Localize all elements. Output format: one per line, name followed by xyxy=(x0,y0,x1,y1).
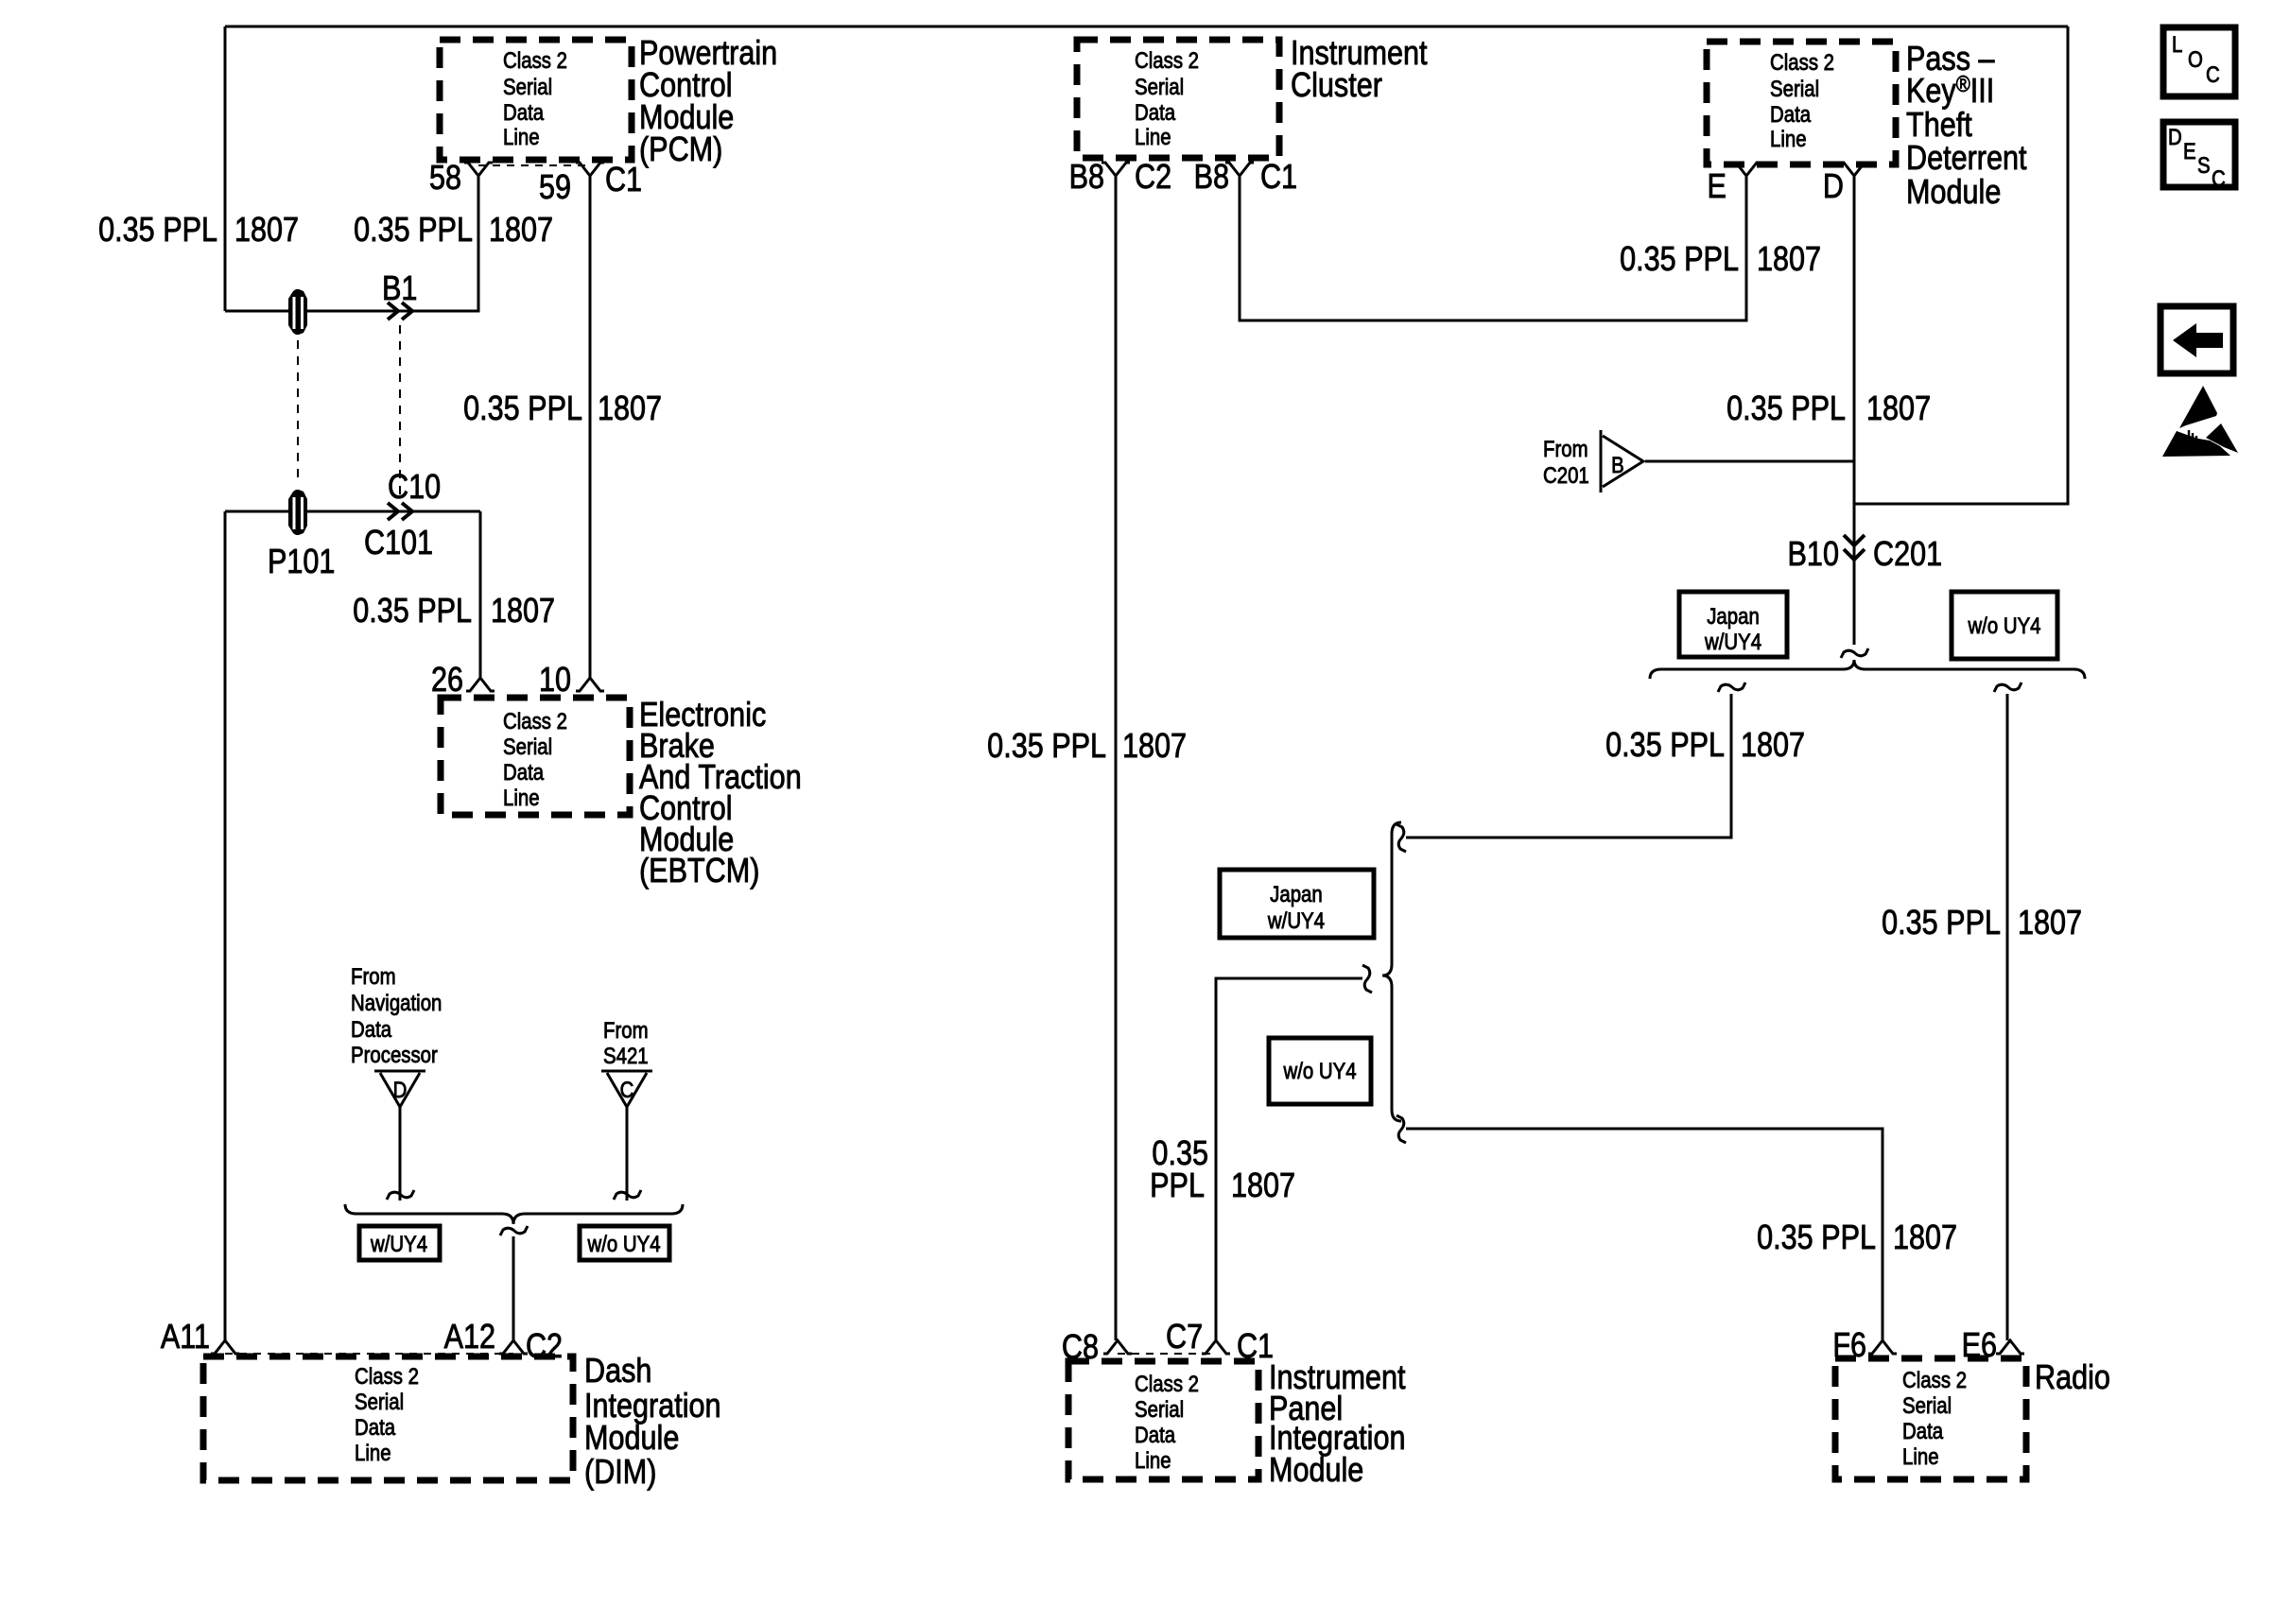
svg-text:1807: 1807 xyxy=(234,212,299,250)
wire break mark east end of IPM C1 link xyxy=(1362,965,1372,993)
svg-text:1807: 1807 xyxy=(1866,390,1931,428)
wire C101 row xyxy=(225,510,480,513)
svg-text:0.35 PPL: 0.35 PPL xyxy=(98,212,217,250)
svg-text:Processor: Processor xyxy=(351,1042,438,1067)
svg-text:C7: C7 xyxy=(1166,1319,1203,1356)
svg-text:w/UY4: w/UY4 xyxy=(370,1231,427,1256)
svg-text:C1: C1 xyxy=(1260,159,1297,197)
wire PassKey D drop to brace xyxy=(1853,176,1856,645)
svg-text:Japan: Japan xyxy=(1270,881,1323,907)
svg-text:Navigation: Navigation xyxy=(351,990,442,1015)
svg-text:1807: 1807 xyxy=(1122,728,1187,766)
wire top bus xyxy=(225,26,2068,28)
svg-text:Class 2: Class 2 xyxy=(1770,49,1834,75)
pin 26 fork xyxy=(466,678,495,691)
svg-text:1807: 1807 xyxy=(491,593,555,631)
wire PCM pin 59/C1 down to EBTCM pin 10 xyxy=(589,176,592,678)
svg-text:0.35 PPL: 0.35 PPL xyxy=(463,390,582,428)
svg-text:w/o UY4: w/o UY4 xyxy=(1283,1058,1357,1083)
wire thin dashed DIM pins A11-A12 xyxy=(225,1353,513,1355)
svg-text:E: E xyxy=(2183,138,2196,164)
svg-text:Class 2: Class 2 xyxy=(355,1363,419,1389)
option box w/o UY4 middle xyxy=(1269,1038,1371,1104)
svg-text:C101: C101 xyxy=(364,525,433,562)
wire break mark triangle D drop end xyxy=(387,1190,414,1200)
svg-text:Class 2: Class 2 xyxy=(503,47,567,73)
svg-text:D: D xyxy=(393,1077,408,1102)
wire C101 row down to EBTCM pin 26 xyxy=(479,511,482,678)
svg-text:C8: C8 xyxy=(1062,1329,1099,1367)
wire triangle C drop xyxy=(626,1107,629,1201)
triangle D From Navigation Data Processor xyxy=(374,1071,425,1107)
wire break mark branch left top xyxy=(1718,682,1745,692)
svg-text:58: 58 xyxy=(429,160,461,198)
svg-text:0.35 PPL: 0.35 PPL xyxy=(353,593,472,631)
module Radio dashed box xyxy=(1835,1358,2026,1479)
pin E Y xyxy=(1732,163,1761,176)
svg-text:1807: 1807 xyxy=(1757,241,1821,279)
svg-text:B: B xyxy=(1611,452,1624,477)
svg-text:S: S xyxy=(2197,152,2211,178)
svg-text:1807: 1807 xyxy=(598,390,662,428)
svg-text:Serial: Serial xyxy=(503,74,552,99)
vertical brace merging Japan/UY4 branches into IPM C1 xyxy=(1382,822,1401,1121)
wire break mark branch right top xyxy=(1994,682,2021,692)
wire thin dashed PCM pins 58-59 xyxy=(478,164,590,166)
svg-text:O: O xyxy=(2188,46,2203,72)
pin 10 fork xyxy=(576,678,604,691)
svg-text:1807: 1807 xyxy=(1741,727,1805,765)
svg-text:Data: Data xyxy=(1135,99,1176,125)
svg-text:1807: 1807 xyxy=(1231,1167,1295,1205)
connector B10/C201 chevrons xyxy=(1844,535,1865,560)
option box w/o UY4 upper xyxy=(1952,592,2057,659)
svg-text:D: D xyxy=(1823,168,1844,206)
svg-text:C1: C1 xyxy=(605,162,642,199)
pin 58 Y xyxy=(464,163,493,176)
svg-text:0.35 PPL: 0.35 PPL xyxy=(1726,390,1846,428)
svg-text:Cluster: Cluster xyxy=(1291,67,1382,105)
svg-text:(EBTCM): (EBTCM) xyxy=(639,853,759,890)
wire dashed B1 to C10 vertical xyxy=(399,325,401,497)
svg-text:Class 2: Class 2 xyxy=(1135,47,1199,73)
svg-text:w/UY4: w/UY4 xyxy=(1704,629,1761,654)
wire from triangle B to D drop xyxy=(1645,460,1854,463)
wire branch left below brace to vertical brace top xyxy=(1406,694,1731,838)
option box Japan w/UY4 upper xyxy=(1679,592,1787,657)
svg-text:Class 2: Class 2 xyxy=(1902,1367,1967,1392)
svg-text:Dash: Dash xyxy=(584,1353,651,1391)
pin 59 Y xyxy=(576,163,604,176)
svg-text:C1: C1 xyxy=(1237,1328,1274,1366)
svg-text:C2: C2 xyxy=(526,1328,563,1366)
connector P101 upper pass-through xyxy=(288,289,307,335)
wire B1 row: bus to PCM pin 58 xyxy=(225,176,478,311)
pin C8 fork xyxy=(1103,1340,1132,1354)
pin F6 fork xyxy=(1868,1340,1897,1354)
svg-text:C10: C10 xyxy=(388,469,441,507)
svg-text:A12: A12 xyxy=(444,1319,495,1356)
svg-text:D: D xyxy=(2168,124,2182,149)
wire cluster C2 long drop to IPM pin C8 xyxy=(1115,176,1118,1340)
svg-text:Line: Line xyxy=(355,1440,391,1465)
svg-text:B10: B10 xyxy=(1788,536,1839,574)
svg-text:P101: P101 xyxy=(268,544,335,581)
svg-text:Module: Module xyxy=(1269,1452,1363,1490)
brace splitting B10 wire into two branches xyxy=(1650,660,2085,679)
svg-text:Data: Data xyxy=(1770,101,1812,127)
triangle B From C201 xyxy=(1601,430,1643,492)
svg-text:Line: Line xyxy=(1135,1447,1171,1473)
wire triangle D drop xyxy=(399,1107,402,1201)
wire dashed P101 mate vertical xyxy=(297,340,299,485)
svg-text:0.35 PPL: 0.35 PPL xyxy=(354,212,473,250)
pin A12 fork xyxy=(499,1340,528,1354)
svg-text:B8: B8 xyxy=(1069,159,1104,197)
svg-text:Serial: Serial xyxy=(503,734,552,759)
pin A11 fork xyxy=(211,1340,239,1354)
svg-text:C: C xyxy=(2212,165,2226,191)
icon DESC box xyxy=(2163,122,2235,187)
svg-text:Japan: Japan xyxy=(1707,603,1760,629)
svg-text:From: From xyxy=(351,963,396,989)
wire left long drop to DIM pin A11 xyxy=(224,511,227,1340)
svg-text:L: L xyxy=(2172,31,2182,57)
connector B1 chevrons xyxy=(388,302,412,320)
svg-text:Deterrent: Deterrent xyxy=(1906,140,2027,178)
pin D Y xyxy=(1840,163,1868,176)
svg-text:Line: Line xyxy=(503,785,540,810)
brace merging triangle D and C drops into A12 xyxy=(345,1204,683,1224)
svg-text:w/UY4: w/UY4 xyxy=(1267,907,1325,933)
connector P101 lower pass-through xyxy=(288,490,307,535)
svg-text:A11: A11 xyxy=(161,1319,210,1356)
svg-text:Line: Line xyxy=(1902,1443,1939,1469)
svg-text:(DIM): (DIM) xyxy=(584,1454,656,1492)
pin C1 fork xyxy=(1202,1340,1230,1354)
svg-text:0.35 PPL: 0.35 PPL xyxy=(1605,727,1725,765)
svg-text:PPL: PPL xyxy=(1150,1167,1205,1205)
svg-text:F6: F6 xyxy=(1832,1327,1866,1365)
module IPM dashed box xyxy=(1068,1361,1258,1479)
svg-text:C201: C201 xyxy=(1873,536,1942,574)
svg-text:Theft: Theft xyxy=(1906,107,1972,145)
wire break mark below DIM brace cusp xyxy=(500,1226,528,1235)
svg-text:Module: Module xyxy=(584,1420,679,1458)
svg-text:Serial: Serial xyxy=(355,1389,404,1414)
svg-text:Data: Data xyxy=(503,759,545,785)
svg-text:S421: S421 xyxy=(603,1043,649,1068)
wire DIM brace drop to pin A12 xyxy=(512,1236,515,1340)
svg-text:26: 26 xyxy=(431,662,463,700)
wire break mark above brace1 cusp xyxy=(1841,648,1868,658)
svg-text:C2: C2 xyxy=(1135,159,1171,197)
svg-text:C: C xyxy=(620,1077,634,1102)
triangle C From S421 xyxy=(601,1071,652,1107)
icon back arrow box xyxy=(2160,306,2233,373)
wire left drop from top bus xyxy=(224,26,227,311)
svg-text:Data: Data xyxy=(355,1414,396,1440)
svg-text:0.35 PPL: 0.35 PPL xyxy=(1620,241,1739,279)
pin E6 fork xyxy=(1996,1340,2024,1354)
svg-text:Key®III: Key®III xyxy=(1906,71,1994,110)
module Instrument Cluster dashed box xyxy=(1077,40,1279,158)
connector C10 chevrons xyxy=(388,503,412,520)
svg-text:B8: B8 xyxy=(1194,159,1229,197)
svg-text:10: 10 xyxy=(539,662,571,700)
svg-text:Line: Line xyxy=(1135,124,1171,149)
wire break mark west end of upper link xyxy=(1397,824,1406,852)
svg-text:From: From xyxy=(603,1017,649,1043)
svg-text:0.35 PPL: 0.35 PPL xyxy=(1757,1219,1876,1257)
wire IPM C1 rise to vertical brace cusp xyxy=(1216,978,1362,1340)
svg-text:Module: Module xyxy=(1906,174,2001,212)
svg-text:Line: Line xyxy=(1770,126,1807,151)
svg-text:1807: 1807 xyxy=(1893,1219,1957,1257)
svg-text:C: C xyxy=(2206,61,2220,87)
svg-text:Class 2: Class 2 xyxy=(1135,1371,1199,1396)
svg-text:0.35 PPL: 0.35 PPL xyxy=(1882,905,2001,942)
wire bottom branch from vertical brace to Radio pin F6 xyxy=(1406,1129,1883,1340)
svg-text:Serial: Serial xyxy=(1135,74,1184,99)
svg-text:w/o UY4: w/o UY4 xyxy=(1968,613,2041,638)
svg-text:Radio: Radio xyxy=(2035,1359,2110,1397)
svg-text:C201: C201 xyxy=(1543,462,1589,488)
pin B8a Y xyxy=(1102,163,1130,176)
svg-text:Data: Data xyxy=(503,99,545,125)
module PassKey dashed box xyxy=(1707,42,1896,164)
svg-text:E: E xyxy=(1708,168,1726,206)
wire thin dashed IPM pins C8-C1 xyxy=(1118,1353,1216,1355)
svg-text:B1: B1 xyxy=(382,270,417,308)
svg-text:59: 59 xyxy=(539,169,571,207)
svg-text:Data: Data xyxy=(351,1016,392,1042)
svg-text:w/o UY4: w/o UY4 xyxy=(587,1231,661,1256)
icon LOC box xyxy=(2163,27,2235,96)
svg-text:E6: E6 xyxy=(1962,1327,1997,1365)
svg-text:1807: 1807 xyxy=(489,212,553,250)
wire break mark west end of lower link xyxy=(1397,1115,1406,1143)
svg-text:1807: 1807 xyxy=(2018,905,2082,942)
icon ESD symbol xyxy=(2179,386,2217,428)
wire branch right long drop to Radio pin E6 xyxy=(2006,694,2009,1340)
option box Japan w/UY4 middle xyxy=(1220,870,1374,938)
svg-text:(PCM): (PCM) xyxy=(639,131,722,169)
option box w/o UY4 lower xyxy=(580,1226,669,1260)
module EBTCM dashed box xyxy=(441,698,630,815)
wire break mark triangle C drop end xyxy=(614,1190,641,1200)
svg-text:Class 2: Class 2 xyxy=(503,708,567,734)
pin B8b Y xyxy=(1225,163,1254,176)
wire cluster C1 over to PassKey pin E xyxy=(1240,176,1746,320)
svg-text:Data: Data xyxy=(1135,1422,1176,1447)
wire right drop from top bus to D branch xyxy=(1854,26,2068,504)
svg-text:Serial: Serial xyxy=(1135,1396,1184,1422)
svg-text:From: From xyxy=(1543,436,1588,461)
svg-text:Serial: Serial xyxy=(1902,1392,1952,1418)
option box w/UY4 lower xyxy=(359,1226,440,1260)
module PCM dashed box xyxy=(440,40,632,160)
module DIM dashed box xyxy=(203,1356,573,1480)
svg-text:Serial: Serial xyxy=(1770,76,1819,101)
svg-text:Line: Line xyxy=(503,124,540,149)
svg-text:Data: Data xyxy=(1902,1418,1944,1443)
svg-text:0.35 PPL: 0.35 PPL xyxy=(987,728,1106,766)
